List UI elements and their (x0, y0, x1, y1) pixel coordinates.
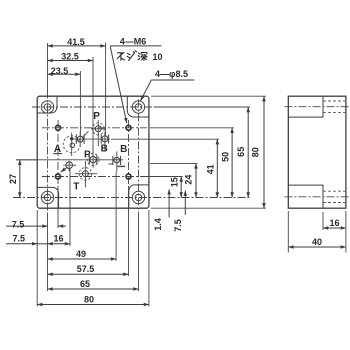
center line M6 right column (128, 120, 130, 184)
dim 41.5 (48, 45, 106, 47)
ext line M6 left column bottom (57, 186, 59, 228)
ext line bottom hole row right (154, 197, 251, 199)
svg-text:10: 10 (152, 52, 162, 62)
M6 tapped hole bottom-left (56, 174, 61, 179)
corner pad bottom-right (129, 185, 149, 208)
ext line top edge right (151, 95, 266, 97)
ext line side step (322, 212, 324, 230)
dim 65 bottom (48, 288, 139, 290)
side view center line bottom hole (285, 196, 350, 198)
M6 tapped hole top-left (56, 125, 61, 130)
svg-text:7.5: 7.5 (12, 219, 25, 229)
svg-text:80: 80 (84, 294, 94, 304)
port P lower with hidden circle (87, 152, 99, 168)
ext line plate left edge bottom (36, 210, 38, 307)
ext line left hole column bottom (47, 214, 49, 292)
svg-text:P: P (84, 149, 91, 160)
ext line side left (287, 211, 289, 253)
ext line gauge port column bottom (69, 169, 71, 246)
port P upper with hidden circle (91, 120, 106, 146)
M6 tapped hole bottom-right (126, 174, 131, 179)
ext line M6 right column bottom (128, 186, 130, 276)
gauge port with hidden circle left (63, 133, 80, 157)
svg-text:80: 80 (250, 147, 260, 157)
port B upper (101, 132, 108, 151)
side view counterbore bottom (288, 185, 323, 208)
svg-text:P: P (93, 111, 100, 122)
ext line plate right edge bottom (148, 210, 150, 307)
ext line top hole row right (154, 106, 251, 108)
dim 7.5 left row1 (6, 225, 48, 227)
ext line port B column (105, 43, 107, 137)
dim 40 side (288, 246, 346, 248)
ext line bottom edge right (151, 207, 266, 209)
svg-text:27: 27 (8, 174, 18, 184)
dim 15 right (180, 177, 182, 198)
mounting hole top-right (132, 101, 144, 113)
ext line M6 row right (147, 176, 183, 178)
center line M6 left column (57, 120, 59, 184)
side view hidden hole lines bottom (323, 190, 346, 192)
dim 7.5 below right (184, 191, 186, 216)
ext line port B lower column bottom (115, 172, 117, 262)
corner pad top-right (127, 96, 149, 117)
svg-text:24: 24 (184, 175, 194, 185)
side view outline (288, 96, 346, 208)
center line M6 bottom row (42, 176, 147, 178)
svg-text:15: 15 (169, 177, 179, 187)
dim 23.5 (48, 73, 81, 75)
svg-text:B: B (120, 144, 127, 155)
dim 24 right (195, 163, 197, 197)
svg-text:7.5: 7.5 (12, 234, 25, 244)
dim 7.5 and 16 row2 (6, 243, 37, 245)
mounting hole bottom-right (132, 191, 144, 203)
svg-text:65: 65 (236, 147, 246, 157)
label nejibuka 10 (117, 51, 147, 61)
ext line right hole column bottom (138, 214, 140, 292)
leader to lower-left M6 (61, 168, 67, 172)
dim 16 side (323, 227, 346, 229)
dim 49 (48, 258, 117, 260)
leader 4-phi8.5 (141, 80, 152, 101)
dim 80 bottom (37, 304, 149, 306)
svg-text:16: 16 (329, 218, 339, 228)
ext line P row right (150, 127, 234, 129)
svg-text:1.4: 1.4 (153, 218, 163, 231)
dim 50 right (231, 128, 233, 198)
port row connector A-B (72, 138, 110, 140)
center line vertical right hole column (138, 100, 140, 214)
ext line 24 row right (150, 162, 197, 164)
svg-text:41.5: 41.5 (67, 37, 85, 47)
ext line 27 top (16, 159, 37, 161)
center line horizontal top hole row (32, 106, 154, 108)
ext line side right (345, 211, 347, 253)
svg-text:32.5: 32.5 (61, 52, 79, 62)
svg-text:B: B (101, 144, 108, 155)
dim 65 right (247, 107, 249, 198)
dim 41 right (216, 139, 218, 197)
gauge port lower-left (63, 161, 76, 172)
M6 tapped hole top-right (126, 125, 131, 130)
dim 32.5 (48, 60, 94, 62)
mounting hole top-left (41, 101, 53, 113)
port B lower (109, 152, 126, 172)
ext line port A column (79, 71, 81, 137)
ext line AB row right (111, 138, 219, 140)
corner pad top-left (37, 96, 57, 113)
leader 4-M6 (110, 46, 127, 123)
svg-text:T: T (73, 182, 79, 193)
dim 57.5 (48, 273, 129, 275)
center line M6 top row (42, 127, 147, 129)
svg-text:4—M6: 4—M6 (120, 37, 147, 47)
svg-text:4—φ8.5: 4—φ8.5 (155, 69, 188, 79)
port T with hidden circle (75, 161, 98, 187)
port connector P-B lower row (16, 159, 123, 161)
side view hidden hole lines top (323, 100, 346, 102)
svg-text:40: 40 (312, 237, 322, 247)
side view center line top hole (285, 106, 350, 108)
plate outline front view (37, 96, 149, 208)
corner pad bottom-left (37, 187, 58, 208)
dim 80 right (263, 96, 265, 208)
side view counterbore top (288, 96, 323, 117)
svg-text:16: 16 (53, 234, 63, 244)
svg-text:50: 50 (220, 152, 230, 162)
center line horizontal bottom hole row (13, 197, 154, 199)
svg-text:49: 49 (76, 249, 86, 259)
svg-text:57.5: 57.5 (77, 264, 95, 274)
ext line port P column (92, 57, 94, 156)
mounting hole bottom-left (41, 191, 53, 203)
svg-text:65: 65 (80, 279, 90, 289)
port A upper (76, 131, 88, 147)
dim 27 (19, 160, 21, 198)
ext line left hole column top (47, 43, 49, 92)
svg-text:7.5: 7.5 (173, 219, 183, 232)
svg-text:23.5: 23.5 (51, 66, 69, 76)
center line vertical left hole column (47, 91, 49, 214)
svg-text:41: 41 (205, 164, 215, 174)
dim 1.4 below right (168, 189, 170, 217)
